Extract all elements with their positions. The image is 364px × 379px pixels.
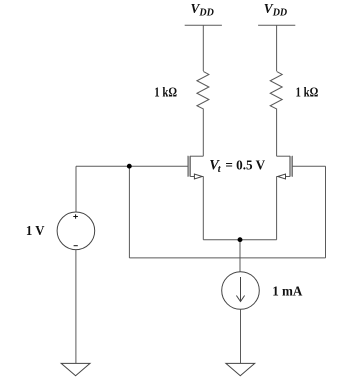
svg-text:1 kΩ: 1 kΩ: [296, 85, 319, 100]
svg-text:1 mA: 1 mA: [272, 284, 303, 299]
svg-text:= 0.5 V: = 0.5 V: [225, 159, 265, 174]
svg-text:DD: DD: [198, 7, 213, 18]
svg-text:1 V: 1 V: [26, 224, 45, 239]
svg-text:t: t: [218, 164, 222, 175]
svg-text:DD: DD: [272, 7, 287, 18]
svg-text:1 kΩ: 1 kΩ: [154, 85, 177, 100]
